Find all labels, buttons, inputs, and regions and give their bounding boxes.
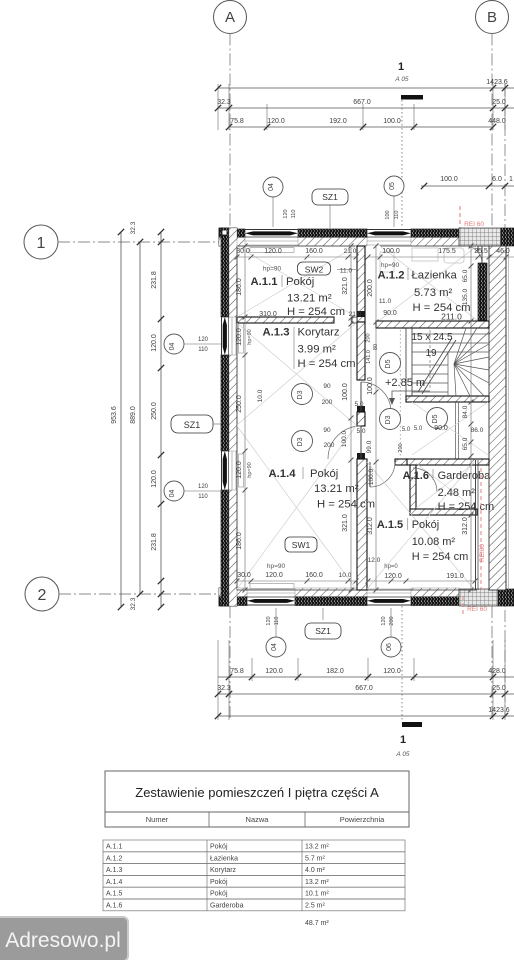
svg-text:5.73 m²: 5.73 m² [414, 287, 453, 299]
svg-text:Pokój: Pokój [310, 468, 338, 480]
svg-text:100.0: 100.0 [383, 118, 401, 125]
svg-text:321.0: 321.0 [342, 277, 349, 295]
svg-text:120.0: 120.0 [236, 461, 243, 479]
svg-text:46.0: 46.0 [496, 248, 510, 255]
svg-text:REI60: REI60 [479, 544, 486, 562]
svg-text:2: 2 [38, 587, 47, 604]
svg-text:1: 1 [509, 176, 513, 183]
svg-text:5.7 m²: 5.7 m² [305, 855, 326, 862]
svg-text:231.8: 231.8 [151, 271, 158, 289]
svg-text:120.0: 120.0 [265, 668, 283, 675]
bottom dim line segments [218, 676, 514, 678]
svg-text:30.0: 30.0 [236, 248, 250, 255]
svg-text:15 x 24.5: 15 x 24.5 [411, 332, 453, 343]
interior face lines [237, 245, 357, 247]
svg-text:182.0: 182.0 [326, 668, 344, 675]
left dim line 953.6 [120, 232, 122, 607]
svg-text:hp=0: hp=0 [384, 564, 398, 570]
svg-text:04: 04 [268, 183, 275, 191]
svg-text:D3: D3 [385, 415, 392, 424]
svg-text:13.21 m²: 13.21 m² [287, 293, 332, 305]
garderoba left wall [410, 465, 416, 515]
svg-text:D3: D3 [297, 390, 304, 399]
svg-text:32.3: 32.3 [130, 597, 137, 610]
svg-text:100.0: 100.0 [382, 248, 400, 255]
room cross lines [237, 246, 356, 317]
svg-text:65.0: 65.0 [462, 437, 469, 450]
svg-text:32.3: 32.3 [130, 221, 137, 234]
stair walk line [429, 330, 431, 390]
left dim line segments [160, 232, 162, 607]
vertical dim line right rooms [470, 246, 472, 590]
svg-text:200: 200 [398, 443, 404, 452]
door corridor-A14 [328, 426, 361, 459]
stairs bottom wall [406, 396, 489, 402]
room below stairs bottom wall [406, 459, 489, 465]
svg-text:A 05: A 05 [394, 76, 409, 83]
svg-text:Pokój: Pokój [210, 844, 228, 851]
hall dotted walk line [399, 330, 401, 458]
door hall-A15 [370, 462, 395, 487]
svg-text:141.0: 141.0 [366, 350, 372, 364]
right party wall hatched [489, 246, 506, 590]
svg-text:Korytarz: Korytarz [210, 867, 237, 874]
window left WL1 [221, 317, 223, 355]
svg-text:6.0: 6.0 [492, 176, 502, 183]
svg-text:110: 110 [274, 617, 280, 626]
svg-text:231.8: 231.8 [151, 533, 158, 551]
svg-text:80: 80 [373, 344, 379, 350]
upper right dim 100.0 [421, 185, 514, 187]
svg-text:D3: D3 [297, 437, 304, 446]
svg-text:Powierzchnia: Powierzchnia [340, 815, 385, 824]
svg-text:13.2 m²: 13.2 m² [305, 879, 329, 886]
svg-text:12.0: 12.0 [368, 557, 381, 564]
svg-text:310.0: 310.0 [259, 311, 277, 318]
fire wall marker REI60 top [459, 206, 461, 228]
svg-text:2.5 m²: 2.5 m² [305, 903, 326, 910]
svg-text:Garderoba: Garderoba [438, 470, 491, 482]
svg-text:90: 90 [323, 427, 331, 434]
svg-text:110: 110 [291, 210, 297, 219]
svg-text:250.0: 250.0 [236, 395, 243, 413]
svg-text:160.0: 160.0 [305, 572, 323, 579]
svg-text:1423.6: 1423.6 [486, 79, 508, 86]
svg-text:04: 04 [169, 490, 176, 498]
window bottom W4 hp=0 [367, 604, 411, 606]
corner white square [222, 230, 227, 235]
svg-text:H = 254 cm: H = 254 cm [412, 551, 469, 563]
bottom wall fire segment grid hatch [459, 589, 498, 606]
door jambs dark blocks [357, 311, 365, 317]
svg-text:448.0: 448.0 [488, 118, 506, 125]
svg-text:120: 120 [283, 209, 289, 218]
svg-text:A.1.3: A.1.3 [262, 327, 289, 339]
lintel circle 04 bottom [266, 637, 286, 657]
table data rows [103, 840, 405, 852]
circles D3 D5 [292, 384, 313, 405]
svg-text:hp=90: hp=90 [247, 329, 253, 344]
garderoba door [413, 468, 437, 492]
svg-text:30.0: 30.0 [237, 572, 251, 579]
grid axis B [476, 1, 509, 34]
svg-text:65.0: 65.0 [462, 269, 469, 282]
svg-text:hp=90: hp=90 [381, 262, 400, 269]
bottom dim line total [218, 715, 514, 717]
hall A.1.5 wall stub [395, 459, 407, 465]
svg-text:25.5: 25.5 [474, 248, 488, 255]
svg-text:04: 04 [169, 343, 176, 351]
svg-text:110: 110 [198, 347, 208, 353]
svg-text:A.1.5: A.1.5 [106, 891, 122, 898]
svg-text:75.8: 75.8 [230, 118, 244, 125]
svg-text:3.99 m²: 3.99 m² [298, 344, 337, 356]
radiators under windows [250, 248, 294, 253]
svg-text:SZ1: SZ1 [184, 420, 201, 430]
svg-text:REI 60: REI 60 [467, 606, 487, 613]
bathroom right wall [478, 263, 487, 321]
closet divider below stairs [455, 402, 457, 459]
stairs left boundary [405, 328, 407, 396]
window top W1 [245, 229, 298, 231]
svg-text:10.1 m²: 10.1 m² [305, 891, 329, 898]
svg-text:110: 110 [394, 211, 400, 220]
top dimension extension lines [217, 84, 219, 130]
stair cut line [418, 338, 452, 392]
stair treads straight [412, 333, 489, 335]
corner solid blocks [219, 228, 237, 246]
hall walk arrow [392, 391, 430, 399]
svg-text:Nazwa: Nazwa [246, 815, 270, 824]
svg-text:hp=90: hp=90 [247, 462, 253, 477]
vertical dim line mid rooms [350, 246, 352, 590]
lintel circle 04 left lower [164, 481, 184, 501]
svg-text:120.0: 120.0 [151, 334, 158, 352]
left dim line 889.0 [139, 242, 141, 594]
svg-text:953.6: 953.6 [111, 406, 118, 424]
wall A.1.3 / hall [357, 322, 365, 380]
svg-text:A.1.4: A.1.4 [268, 468, 296, 480]
window left WL2 [221, 451, 223, 490]
svg-text:211.0: 211.0 [441, 312, 462, 322]
top exterior wall [219, 229, 245, 238]
svg-text:90.0: 90.0 [434, 425, 448, 432]
svg-text:25.0: 25.0 [492, 685, 506, 692]
svg-text:05: 05 [389, 182, 396, 190]
svg-text:H = 254 cm: H = 254 cm [438, 501, 495, 513]
svg-text:110: 110 [198, 494, 208, 500]
svg-text:1423.6: 1423.6 [488, 707, 510, 714]
svg-text:H = 254 cm: H = 254 cm [287, 306, 345, 318]
svg-text:75.8: 75.8 [230, 668, 244, 675]
svg-text:A.1.6: A.1.6 [106, 903, 122, 910]
svg-text:A: A [225, 9, 235, 26]
vertical dim line hall [375, 246, 377, 590]
axis lines below plan [229, 606, 231, 720]
svg-text:A 05: A 05 [395, 751, 410, 758]
svg-text:Garderoba: Garderoba [210, 903, 244, 910]
svg-text:19: 19 [425, 348, 437, 359]
svg-text:REI 60: REI 60 [464, 221, 484, 228]
bathroom fixtures [412, 248, 438, 261]
svg-text:2.48 m²: 2.48 m² [438, 487, 476, 499]
svg-text:10.08 m²: 10.08 m² [412, 536, 456, 548]
svg-text:192.0: 192.0 [329, 118, 347, 125]
lintel circle 04 top [263, 177, 283, 197]
top dim line 667 [218, 107, 514, 109]
svg-text:120.0: 120.0 [264, 248, 282, 255]
vertical dim line left rooms [244, 246, 246, 590]
tag SZ1 top [312, 189, 348, 205]
wall A.1.1 / A.1.3 [237, 317, 334, 323]
svg-text:04: 04 [271, 643, 278, 651]
svg-text:312.0: 312.0 [462, 517, 469, 535]
svg-text:186.0: 186.0 [236, 532, 243, 550]
svg-text:200: 200 [366, 333, 372, 342]
svg-text:1: 1 [37, 235, 46, 252]
svg-text:889.0: 889.0 [130, 406, 137, 424]
svg-text:428.0: 428.0 [488, 668, 506, 675]
section line 1 vertical dotted [401, 100, 403, 228]
svg-text:A.1.1: A.1.1 [106, 844, 122, 851]
svg-text:11.0: 11.0 [340, 268, 353, 275]
svg-text:21.0: 21.0 [344, 248, 357, 255]
interior dim line top row [237, 256, 356, 258]
svg-text:200: 200 [322, 399, 333, 406]
svg-text:120: 120 [266, 616, 272, 625]
svg-text:32.3: 32.3 [217, 99, 231, 106]
grid axis 1 [24, 225, 58, 259]
svg-text:667.0: 667.0 [353, 99, 371, 106]
svg-text:25.0: 25.0 [492, 99, 506, 106]
grid axis A [214, 1, 247, 34]
svg-text:100.0: 100.0 [367, 377, 374, 395]
svg-text:100.0: 100.0 [368, 468, 375, 485]
window bottom W3 [247, 604, 295, 606]
wall A.1.4 / A.1.5 [357, 459, 367, 590]
svg-text:hp=90: hp=90 [267, 563, 286, 570]
svg-text:5.0: 5.0 [356, 428, 365, 435]
svg-text:120.0: 120.0 [151, 470, 158, 488]
bottom dim extension lines [217, 640, 219, 720]
stair winder fan [454, 328, 466, 364]
svg-text:90: 90 [323, 383, 331, 390]
tag SZ1 left [171, 415, 213, 433]
svg-text:120.0: 120.0 [267, 118, 285, 125]
svg-text:10.0: 10.0 [339, 572, 352, 579]
svg-text:SZ1: SZ1 [315, 626, 331, 636]
top dim line total 1423.6 [218, 87, 514, 89]
svg-text:+2.85 m: +2.85 m [385, 377, 425, 389]
svg-text:A.1.2: A.1.2 [377, 270, 404, 282]
svg-text:SW1: SW1 [292, 540, 311, 550]
svg-text:99.0: 99.0 [366, 440, 373, 453]
svg-text:hp=90: hp=90 [263, 266, 282, 273]
svg-text:5.0: 5.0 [402, 427, 411, 433]
svg-text:120: 120 [381, 616, 387, 625]
svg-text:667.0: 667.0 [355, 685, 373, 692]
bottom exterior wall [219, 597, 247, 606]
svg-text:160.0: 160.0 [305, 248, 323, 255]
table room schedule [105, 771, 409, 827]
wall stub [357, 412, 365, 426]
svg-text:H = 254 cm: H = 254 cm [317, 499, 375, 511]
svg-text:200.0: 200.0 [367, 279, 374, 297]
svg-text:D5: D5 [385, 359, 392, 368]
svg-text:175.5: 175.5 [438, 248, 456, 255]
svg-text:Pokój: Pokój [210, 891, 228, 898]
svg-text:120.0: 120.0 [265, 572, 283, 579]
svg-text:A.1.5: A.1.5 [377, 519, 403, 531]
svg-text:191.0: 191.0 [446, 573, 464, 580]
left exterior wall [221, 228, 229, 317]
svg-text:100.0: 100.0 [341, 430, 348, 447]
grid axis 2 [25, 577, 59, 611]
svg-text:06: 06 [386, 643, 393, 651]
svg-text:86.0: 86.0 [471, 427, 484, 434]
svg-text:4.0 m²: 4.0 m² [305, 867, 326, 874]
svg-text:SZ1: SZ1 [322, 192, 338, 202]
window top W2 [367, 229, 411, 231]
svg-text:D5: D5 [432, 414, 439, 423]
interior dim line bathroom row [368, 256, 514, 258]
svg-text:100.0: 100.0 [440, 176, 458, 183]
svg-text:321.0: 321.0 [342, 514, 349, 532]
lintel circle 05 top [384, 176, 404, 196]
svg-text:120: 120 [198, 337, 209, 343]
wall A.1.1 / A.1.2 [357, 246, 365, 322]
svg-text:186.0: 186.0 [236, 278, 243, 296]
door corridor-hall [361, 382, 391, 412]
svg-text:10.0: 10.0 [257, 389, 264, 402]
svg-text:48.7 m²: 48.7 m² [305, 920, 329, 927]
bottom dim line 667 [218, 693, 514, 695]
svg-text:11.0: 11.0 [379, 298, 392, 305]
svg-text:5.0: 5.0 [414, 426, 423, 432]
bathroom door [465, 246, 482, 263]
svg-text:120: 120 [198, 484, 209, 490]
svg-text:Zestawienie pomieszczeń I pięt: Zestawienie pomieszczeń I piętra części … [135, 785, 379, 800]
section marker bar top [401, 95, 423, 100]
svg-text:A.1.6: A.1.6 [403, 470, 429, 482]
svg-text:120.0: 120.0 [383, 668, 401, 675]
lintel circle 06 bottom [381, 637, 401, 657]
watermark Adresowo.pl [0, 917, 128, 960]
svg-text:A.1.4: A.1.4 [106, 879, 122, 886]
svg-text:B: B [487, 9, 497, 26]
A.1.5 garderoba right wall [475, 460, 477, 590]
svg-text:84.0: 84.0 [462, 405, 469, 418]
svg-text:A.1.3: A.1.3 [106, 867, 122, 874]
svg-text:312.0: 312.0 [367, 517, 374, 535]
svg-text:Numer: Numer [146, 815, 169, 824]
svg-text:H = 254 cm: H = 254 cm [298, 358, 356, 370]
svg-text:A.1.2: A.1.2 [106, 855, 122, 862]
svg-text:90.0: 90.0 [383, 310, 397, 317]
svg-text:120.0: 120.0 [236, 328, 243, 346]
top dim line segments [229, 126, 493, 128]
svg-text:Łazienka: Łazienka [210, 855, 238, 862]
svg-text:100.0: 100.0 [342, 383, 349, 401]
svg-text:250.0: 250.0 [151, 402, 158, 420]
svg-text:Adresowo.pl: Adresowo.pl [5, 929, 121, 952]
svg-text:21.0: 21.0 [349, 311, 362, 318]
top wall fire segment grid hatch [459, 228, 501, 246]
svg-text:1: 1 [400, 734, 406, 746]
svg-text:13.2 m²: 13.2 m² [305, 844, 329, 851]
svg-text:A.1.1: A.1.1 [250, 276, 277, 288]
svg-text:5.0: 5.0 [354, 401, 363, 408]
svg-text:1: 1 [398, 61, 404, 73]
stairs top wall / bathroom bottom wall [376, 321, 489, 328]
svg-text:Łazienka: Łazienka [412, 270, 458, 282]
tag SZ1 bottom [305, 623, 341, 639]
svg-text:Pokój: Pokój [412, 519, 440, 531]
section marker bar bottom [402, 722, 422, 727]
svg-text:100: 100 [385, 210, 391, 219]
svg-text:Korytarz: Korytarz [298, 327, 340, 339]
svg-text:32.3: 32.3 [217, 685, 231, 692]
svg-text:Pokój: Pokój [286, 276, 314, 288]
svg-text:200: 200 [389, 616, 395, 625]
interior bottom dim line [237, 580, 356, 582]
svg-text:Pokój: Pokój [210, 879, 228, 886]
svg-text:200: 200 [324, 442, 335, 449]
svg-text:13.21 m²: 13.21 m² [314, 483, 359, 495]
garderoba bottom wall [410, 509, 477, 515]
lintel circle 04 left upper [164, 334, 184, 354]
svg-text:SW2: SW2 [305, 265, 324, 275]
